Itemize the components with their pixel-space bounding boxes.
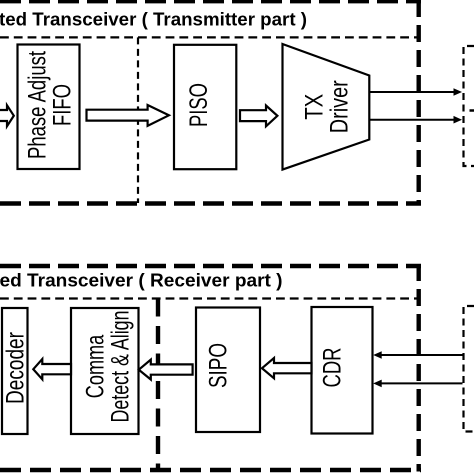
svg-text:Comma: Comma [81, 335, 109, 399]
svg-text:FIFO: FIFO [48, 84, 76, 126]
svg-text:ted Transceiver ( Transmitter: ted Transceiver ( Transmitter part ) [0, 10, 307, 30]
svg-text:PISO: PISO [185, 83, 213, 127]
svg-text:SIPO: SIPO [204, 343, 232, 388]
svg-text:ed Transceiver ( Receiver part: ed Transceiver ( Receiver part ) [0, 271, 283, 291]
svg-text:CDR: CDR [319, 348, 347, 388]
svg-text:Phase Adjust: Phase Adjust [23, 51, 51, 159]
svg-text:Detect & Align: Detect & Align [106, 311, 134, 423]
svg-text:Driver: Driver [325, 80, 353, 133]
svg-text:TX: TX [300, 93, 328, 119]
svg-text:Decoder: Decoder [1, 332, 29, 404]
